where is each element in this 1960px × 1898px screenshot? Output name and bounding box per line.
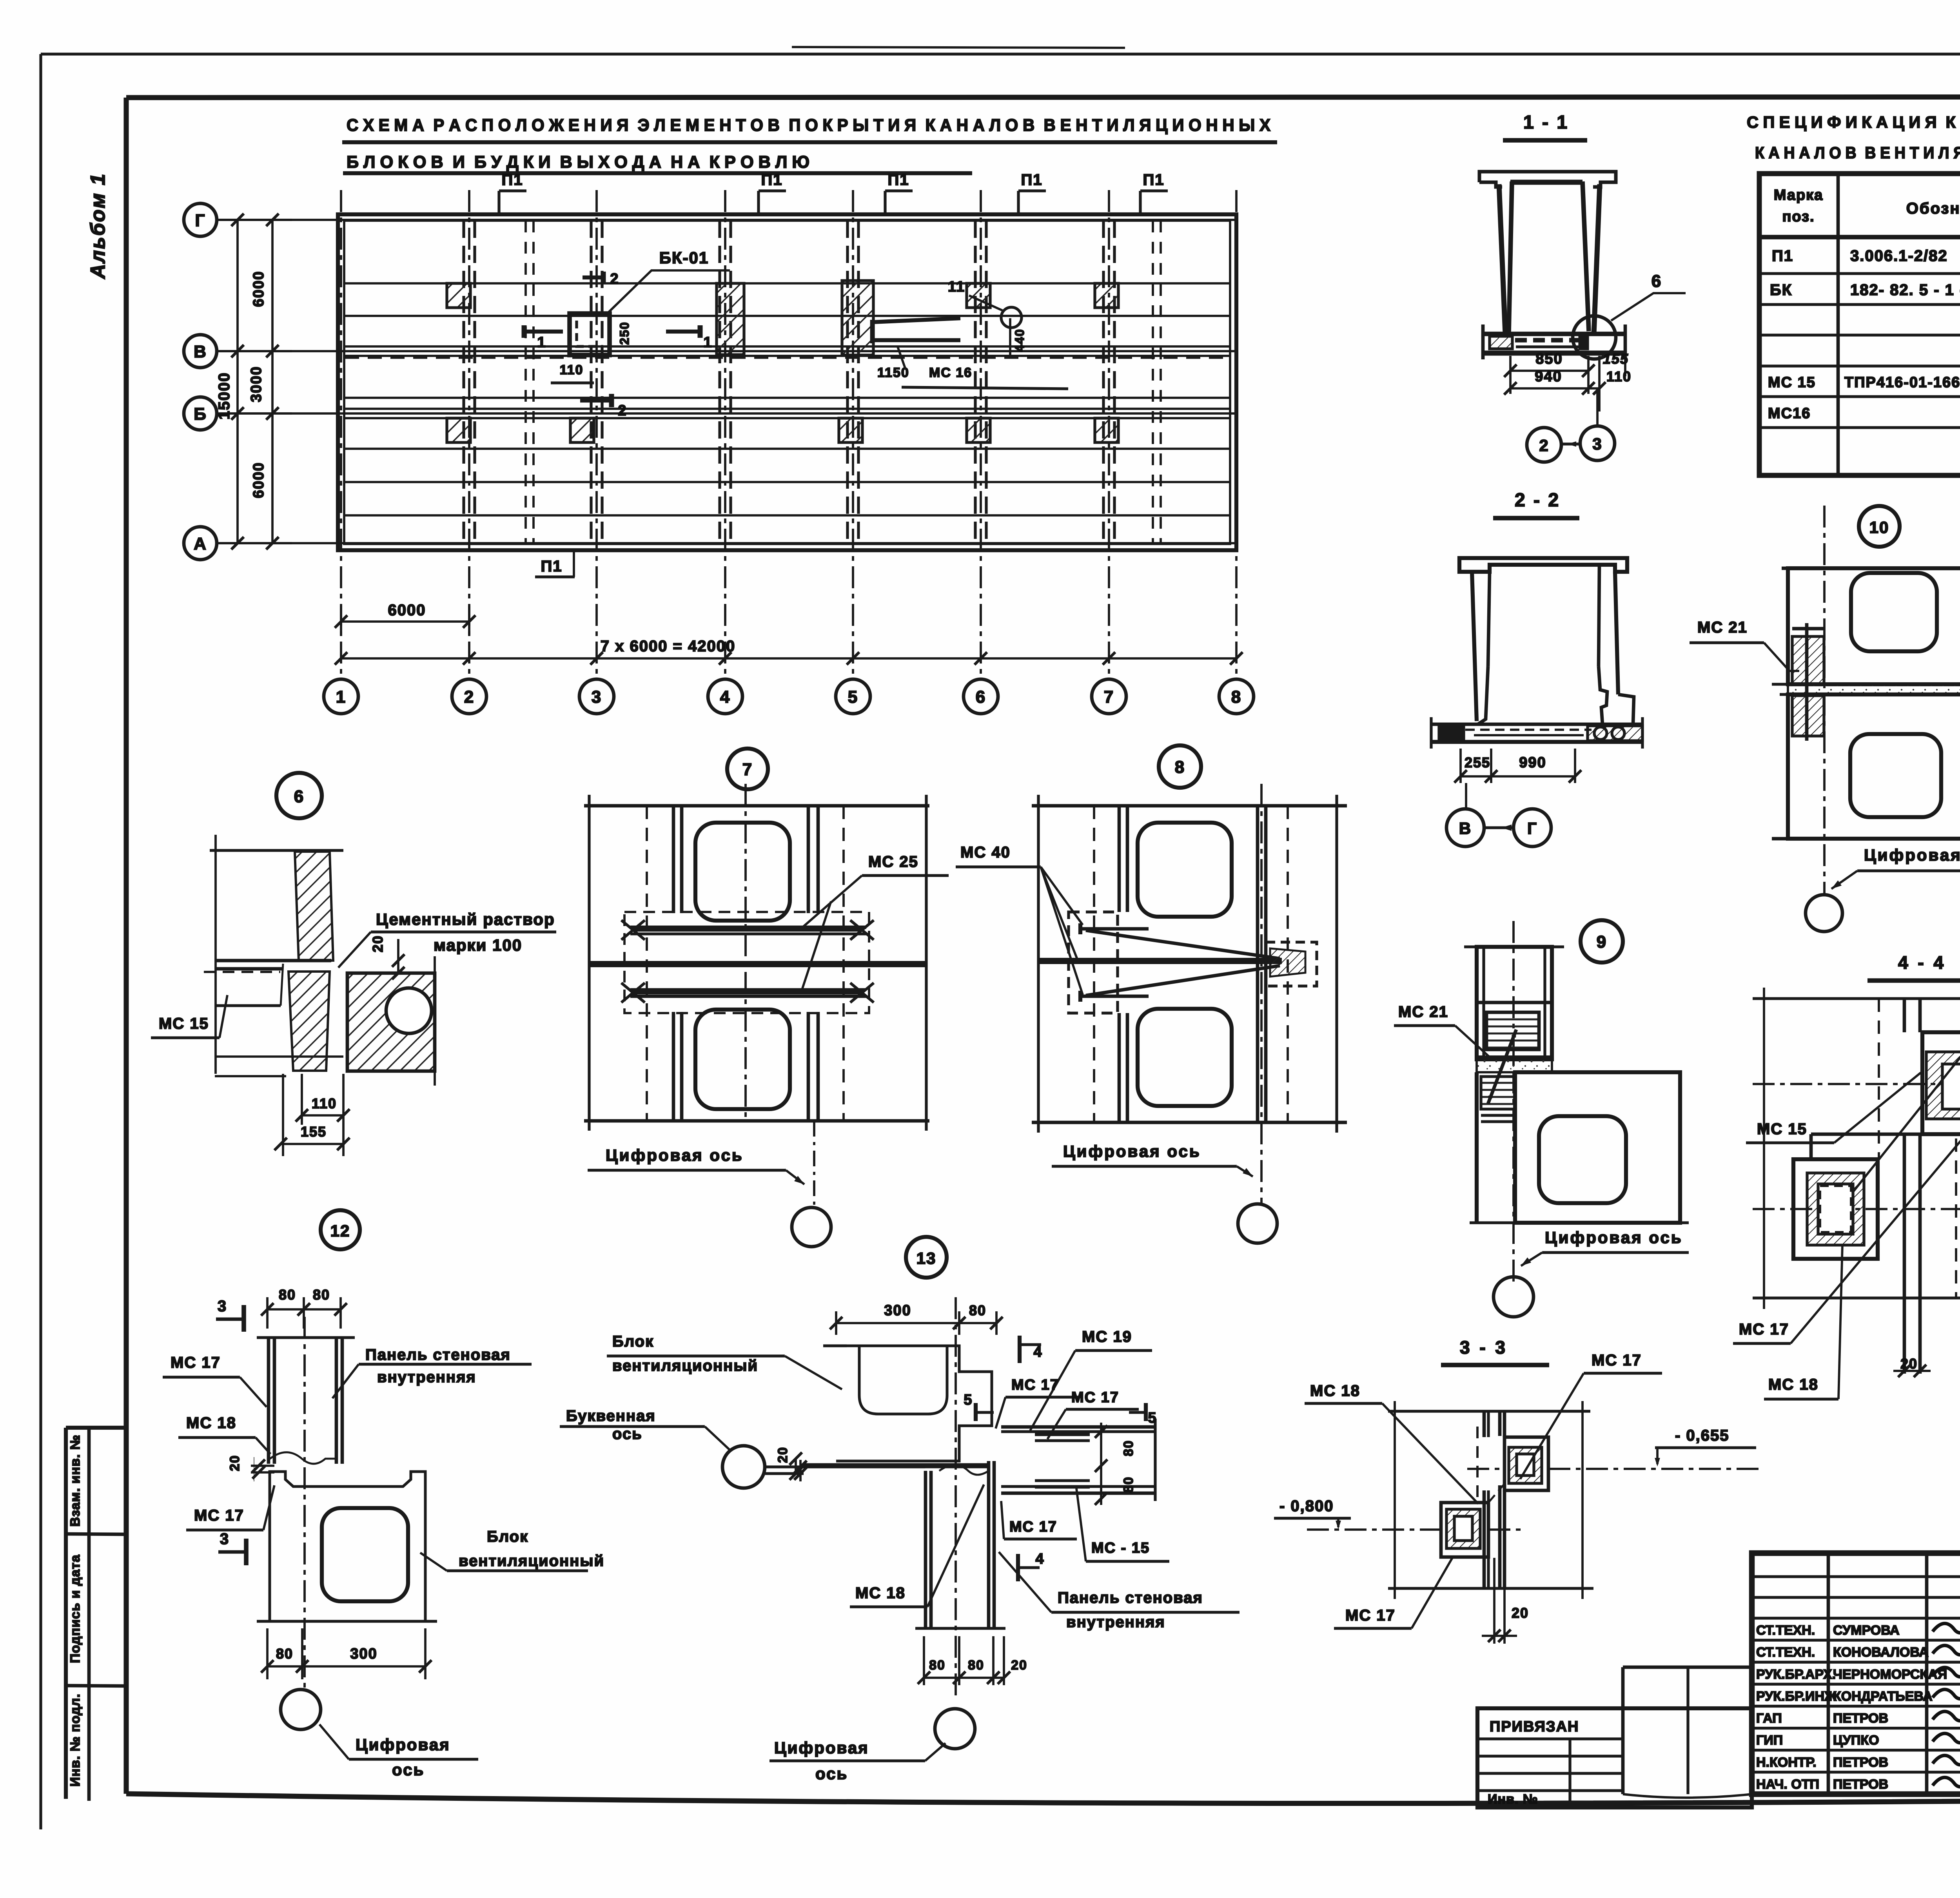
svg-text:3: 3 — [218, 1298, 227, 1315]
svg-text:МС 17: МС 17 — [171, 1354, 221, 1371]
svg-text:А: А — [194, 534, 207, 553]
svg-text:Цементный раствор: Цементный раствор — [376, 910, 555, 928]
svg-text:ПЕТРОВ: ПЕТРОВ — [1833, 1755, 1888, 1770]
svg-text:ПЕТРОВ: ПЕТРОВ — [1833, 1711, 1888, 1726]
svg-text:3000: 3000 — [248, 366, 265, 402]
svg-text:Буквенная: Буквенная — [566, 1407, 656, 1425]
svg-text:НАЧ. ОТП: НАЧ. ОТП — [1756, 1777, 1819, 1792]
svg-text:80: 80 — [969, 1302, 986, 1318]
svg-text:5: 5 — [848, 687, 858, 707]
svg-text:Цифровая: Цифровая — [774, 1738, 869, 1757]
svg-text:2 - 2: 2 - 2 — [1515, 490, 1560, 511]
svg-text:МС 17: МС 17 — [1011, 1377, 1059, 1393]
svg-text:МС - 15: МС - 15 — [1091, 1540, 1150, 1556]
svg-text:6000: 6000 — [250, 462, 267, 499]
svg-text:2: 2 — [610, 271, 619, 287]
svg-text:П1: П1 — [1021, 171, 1043, 189]
svg-text:80: 80 — [1121, 1476, 1136, 1493]
svg-text:110: 110 — [560, 363, 584, 377]
svg-text:80: 80 — [968, 1658, 984, 1673]
svg-text:Взам. инв. №: Взам. инв. № — [68, 1434, 83, 1526]
svg-text:МС 15: МС 15 — [1757, 1120, 1807, 1138]
svg-text:850: 850 — [1535, 351, 1563, 367]
svg-text:990: 990 — [1519, 754, 1546, 771]
svg-text:6: 6 — [1651, 272, 1662, 291]
svg-text:- 0,655: - 0,655 — [1675, 1427, 1730, 1444]
svg-text:Цифровая ось: Цифровая ось — [1063, 1142, 1201, 1160]
svg-text:В: В — [1459, 819, 1472, 838]
svg-text:Г: Г — [1527, 819, 1537, 838]
svg-text:Блок: Блок — [487, 1528, 528, 1545]
svg-text:МС 19: МС 19 — [1082, 1328, 1132, 1345]
svg-text:11: 11 — [948, 279, 965, 295]
svg-text:3.006.1-2/82: 3.006.1-2/82 — [1850, 247, 1948, 265]
svg-text:15000: 15000 — [216, 372, 233, 419]
svg-text:80: 80 — [276, 1646, 293, 1662]
svg-text:6: 6 — [976, 687, 986, 707]
svg-text:7 x 6000 = 42000: 7 x 6000 = 42000 — [601, 638, 736, 655]
svg-text:4: 4 — [720, 687, 730, 707]
svg-text:вентиляционный: вентиляционный — [612, 1357, 758, 1374]
svg-text:МС 17: МС 17 — [1592, 1352, 1642, 1369]
svg-text:1: 1 — [537, 334, 546, 351]
svg-text:12: 12 — [330, 1222, 350, 1240]
svg-text:СТ.ТЕХН.: СТ.ТЕХН. — [1756, 1623, 1815, 1638]
svg-text:ГИП: ГИП — [1756, 1733, 1783, 1748]
svg-text:МС 17: МС 17 — [194, 1507, 244, 1524]
svg-text:КОНОВАЛОВА: КОНОВАЛОВА — [1833, 1645, 1929, 1660]
svg-text:МС16: МС16 — [1768, 405, 1811, 422]
svg-text:МС 15: МС 15 — [159, 1015, 209, 1032]
svg-text:5: 5 — [1148, 1410, 1157, 1426]
svg-text:80: 80 — [313, 1287, 330, 1303]
svg-text:П1: П1 — [541, 558, 563, 575]
svg-text:Блок: Блок — [612, 1333, 654, 1350]
svg-text:9: 9 — [1597, 932, 1607, 952]
svg-text:МС 21: МС 21 — [1398, 1003, 1448, 1021]
svg-text:Панель стеновая: Панель стеновая — [1058, 1589, 1203, 1606]
svg-text:4: 4 — [1033, 1344, 1042, 1360]
svg-text:110: 110 — [1606, 368, 1632, 384]
svg-text:300: 300 — [350, 1646, 377, 1662]
svg-text:Инв. №: Инв. № — [1488, 1792, 1538, 1807]
svg-text:6: 6 — [294, 787, 304, 806]
svg-text:БК: БК — [1770, 281, 1792, 299]
svg-text:3: 3 — [1592, 435, 1602, 453]
svg-text:МС 16: МС 16 — [929, 365, 972, 380]
svg-text:ось: ось — [815, 1764, 848, 1783]
svg-text:П1: П1 — [888, 171, 909, 189]
svg-text:6000: 6000 — [388, 602, 426, 619]
svg-text:В: В — [194, 342, 207, 361]
svg-text:Г: Г — [195, 211, 206, 230]
svg-text:20: 20 — [227, 1455, 242, 1471]
svg-text:СТ.ТЕХН.: СТ.ТЕХН. — [1756, 1645, 1815, 1660]
svg-text:ЦУПКО: ЦУПКО — [1833, 1733, 1879, 1748]
svg-text:внутренняя: внутренняя — [1066, 1613, 1165, 1631]
svg-text:ось: ось — [612, 1425, 642, 1443]
svg-text:440: 440 — [1013, 328, 1027, 352]
svg-text:ось: ось — [392, 1760, 425, 1779]
svg-text:Н.КОНТР.: Н.КОНТР. — [1756, 1755, 1817, 1770]
svg-text:80: 80 — [279, 1287, 296, 1303]
svg-text:6000: 6000 — [250, 271, 267, 307]
svg-text:МС 25: МС 25 — [868, 853, 918, 870]
svg-text:110: 110 — [312, 1095, 337, 1111]
svg-text:МС 17: МС 17 — [1739, 1321, 1789, 1338]
svg-text:300: 300 — [884, 1302, 911, 1319]
svg-text:вентиляционный: вентиляционный — [459, 1552, 604, 1570]
svg-text:Альбом 1: Альбом 1 — [87, 173, 109, 280]
svg-text:250: 250 — [617, 321, 632, 344]
svg-text:8: 8 — [1175, 758, 1185, 777]
svg-text:4 - 4: 4 - 4 — [1898, 952, 1946, 973]
svg-text:155: 155 — [1603, 351, 1629, 367]
svg-text:3 - 3: 3 - 3 — [1460, 1337, 1508, 1358]
svg-text:Марка: Марка — [1774, 187, 1824, 203]
svg-text:Б: Б — [194, 404, 207, 424]
svg-text:С Х Е М А Р А С П О Л О Ж Е Н: С Х Е М А Р А С П О Л О Ж Е Н И Я Э Л Е … — [347, 116, 1270, 135]
svg-text:П1: П1 — [761, 171, 783, 189]
svg-text:20: 20 — [1512, 1605, 1529, 1621]
svg-text:1 - 1: 1 - 1 — [1523, 112, 1569, 133]
svg-text:МС 17: МС 17 — [1071, 1389, 1119, 1406]
svg-text:3: 3 — [592, 687, 602, 707]
svg-text:Цифровая ось: Цифровая ось — [1545, 1228, 1683, 1247]
svg-text:7: 7 — [742, 760, 753, 779]
svg-text:Цифровая: Цифровая — [356, 1735, 450, 1754]
svg-text:К А Н А Л О В В Е Н Т И Л Я Ц: К А Н А Л О В В Е Н Т И Л Я Ц И О Н Н Ы … — [1755, 143, 1960, 162]
svg-text:Цифровая ось: Цифровая ось — [606, 1146, 744, 1164]
svg-text:7: 7 — [1104, 687, 1114, 707]
svg-text:П1: П1 — [502, 171, 523, 189]
svg-text:3: 3 — [220, 1530, 229, 1548]
svg-text:МС 17: МС 17 — [1009, 1519, 1057, 1535]
svg-text:МС 18: МС 18 — [1310, 1382, 1360, 1399]
svg-text:Б Л О К О В И Б У Д К И В Ы: Б Л О К О В И Б У Д К И В Ы Х О Д А Н А … — [347, 152, 809, 172]
svg-text:Обозначение: Обозначение — [1906, 200, 1960, 217]
svg-text:БК-01: БК-01 — [659, 248, 709, 267]
svg-text:ПРИВЯЗАН: ПРИВЯЗАН — [1490, 1719, 1579, 1735]
svg-text:МС 21: МС 21 — [1697, 619, 1748, 636]
svg-text:1: 1 — [336, 687, 346, 707]
svg-text:поз.: поз. — [1782, 208, 1815, 225]
svg-text:Панель стеновая: Панель стеновая — [365, 1346, 511, 1363]
svg-text:Цифровая ось: Цифровая ось — [1864, 846, 1960, 864]
svg-text:20: 20 — [1011, 1658, 1027, 1673]
svg-text:1: 1 — [703, 334, 712, 351]
svg-text:2: 2 — [618, 402, 627, 419]
svg-text:МС 15: МС 15 — [1768, 374, 1816, 391]
svg-text:МС 18: МС 18 — [186, 1414, 236, 1432]
svg-text:10: 10 — [1869, 518, 1889, 537]
svg-text:155: 155 — [301, 1124, 327, 1140]
svg-text:20: 20 — [1900, 1356, 1918, 1372]
svg-text:2: 2 — [1539, 436, 1549, 455]
svg-text:4: 4 — [1035, 1551, 1044, 1567]
svg-text:Подпись и дата: Подпись и дата — [68, 1554, 83, 1663]
svg-text:МС 17: МС 17 — [1345, 1607, 1396, 1624]
svg-text:МС 18: МС 18 — [1768, 1376, 1818, 1393]
svg-text:РУК.БР.АРХ.: РУК.БР.АРХ. — [1756, 1667, 1836, 1682]
svg-text:Инв. № подл.: Инв. № подл. — [68, 1693, 83, 1787]
svg-text:13: 13 — [916, 1249, 936, 1267]
svg-text:марки 100: марки 100 — [434, 936, 522, 954]
svg-text:ТПР416-01-166.85- КЖ.И.18.: ТПР416-01-166.85- КЖ.И.18. — [1844, 374, 1960, 391]
svg-text:МС 18: МС 18 — [855, 1584, 906, 1602]
svg-text:КОНДРАТЬЕВА: КОНДРАТЬЕВА — [1833, 1689, 1933, 1704]
svg-text:80: 80 — [1121, 1440, 1136, 1456]
svg-text:5: 5 — [964, 1392, 973, 1408]
svg-text:ГАП: ГАП — [1756, 1711, 1782, 1726]
svg-text:ПЕТРОВ: ПЕТРОВ — [1833, 1777, 1888, 1792]
svg-text:- 0,800: - 0,800 — [1279, 1497, 1334, 1515]
svg-text:20: 20 — [370, 935, 386, 952]
svg-text:80: 80 — [929, 1658, 946, 1673]
svg-text:П1: П1 — [1772, 247, 1793, 265]
svg-text:940: 940 — [1535, 368, 1562, 385]
svg-text:СУМРОВА: СУМРОВА — [1833, 1623, 1900, 1638]
svg-text:ЧЕРНОМОРСКАЯ: ЧЕРНОМОРСКАЯ — [1833, 1667, 1947, 1682]
svg-text:20: 20 — [775, 1447, 790, 1463]
svg-text:182- 82. 5 - 1 - 5.0.0.0: 182- 82. 5 - 1 - 5.0.0.0 — [1850, 281, 1960, 299]
svg-text:МС 40: МС 40 — [960, 844, 1011, 861]
svg-text:РУК.БР.ИНЖ: РУК.БР.ИНЖ — [1756, 1689, 1837, 1704]
svg-text:2: 2 — [464, 687, 474, 707]
svg-text:8: 8 — [1231, 687, 1241, 707]
svg-text:С П Е Ц И Ф И К А Ц И Я К С: С П Е Ц И Ф И К А Ц И Я К С Х Е М Е Р А … — [1747, 113, 1960, 131]
svg-text:П1: П1 — [1143, 171, 1165, 189]
svg-text:внутренняя: внутренняя — [377, 1369, 476, 1386]
svg-text:255: 255 — [1465, 754, 1490, 770]
